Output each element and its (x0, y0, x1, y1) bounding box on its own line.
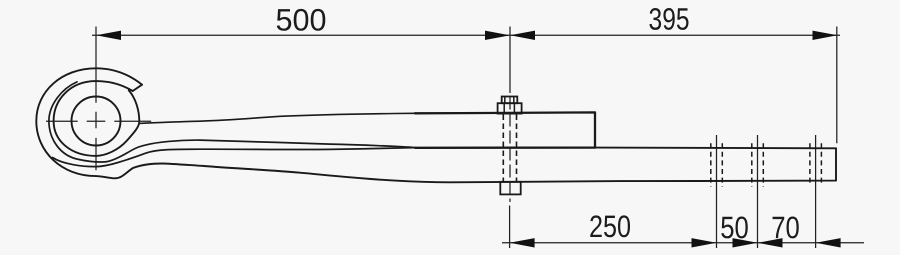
second leaf wrap lower line (line3) (53, 148, 416, 167)
bolt shank hidden lines (502, 115, 504, 182)
bolt protruding end (top small rect with facets) (502, 97, 518, 104)
bolt centerline dash-dot (509, 97, 511, 203)
bottom 70 right arrow outside (816, 238, 841, 247)
outer boundary: eye wrap + bottom line of spring (36, 68, 836, 182)
top line of main(upper) leaf from eye elbow to its end (139, 113, 415, 123)
svg-text:50: 50 (720, 210, 749, 245)
bottom 250 left arrow (510, 238, 535, 247)
svg-text:250: 250 (589, 209, 631, 244)
pin hole circle (72, 97, 121, 146)
top dimension line (92, 34, 840, 36)
hole 2 (752, 143, 764, 187)
extension line right end (836, 27, 838, 144)
hole 3 (810, 143, 822, 186)
svg-text:500: 500 (276, 2, 327, 37)
cut edge of eye leaf end (133, 85, 142, 91)
bottom 50 right arrow (733, 238, 758, 247)
top bowtie at bolt (485, 31, 510, 40)
bottom 70 left arrow (758, 238, 783, 247)
hole 3 centerline (815, 135, 817, 248)
hole 1 (711, 143, 723, 187)
svg-text:70: 70 (771, 210, 800, 245)
extension line / eye centerline vertical (95, 27, 97, 171)
top left arrow at eye center (96, 31, 121, 40)
hole 1 centerline (716, 135, 718, 248)
square nut at bottom (500, 182, 520, 195)
inner boundary of rolled eye (54, 81, 140, 156)
contact line under upper leaf (415, 146, 595, 148)
extension line bolt top (509, 27, 511, 94)
eye horizontal centerline (46, 120, 151, 122)
hole 2 centerline (757, 135, 759, 248)
exposed main leaf top to right end (595, 147, 836, 150)
svg-text:395: 395 (649, 2, 690, 37)
bottom dimension line (502, 242, 864, 244)
top right arrow (813, 31, 838, 40)
second leaf wrap upper line (line2) (49, 82, 415, 162)
arrows (96, 31, 841, 248)
bottom 250 right arrow (692, 238, 717, 247)
bolt hex head (498, 103, 522, 113)
dimension labels (275, 1, 799, 245)
